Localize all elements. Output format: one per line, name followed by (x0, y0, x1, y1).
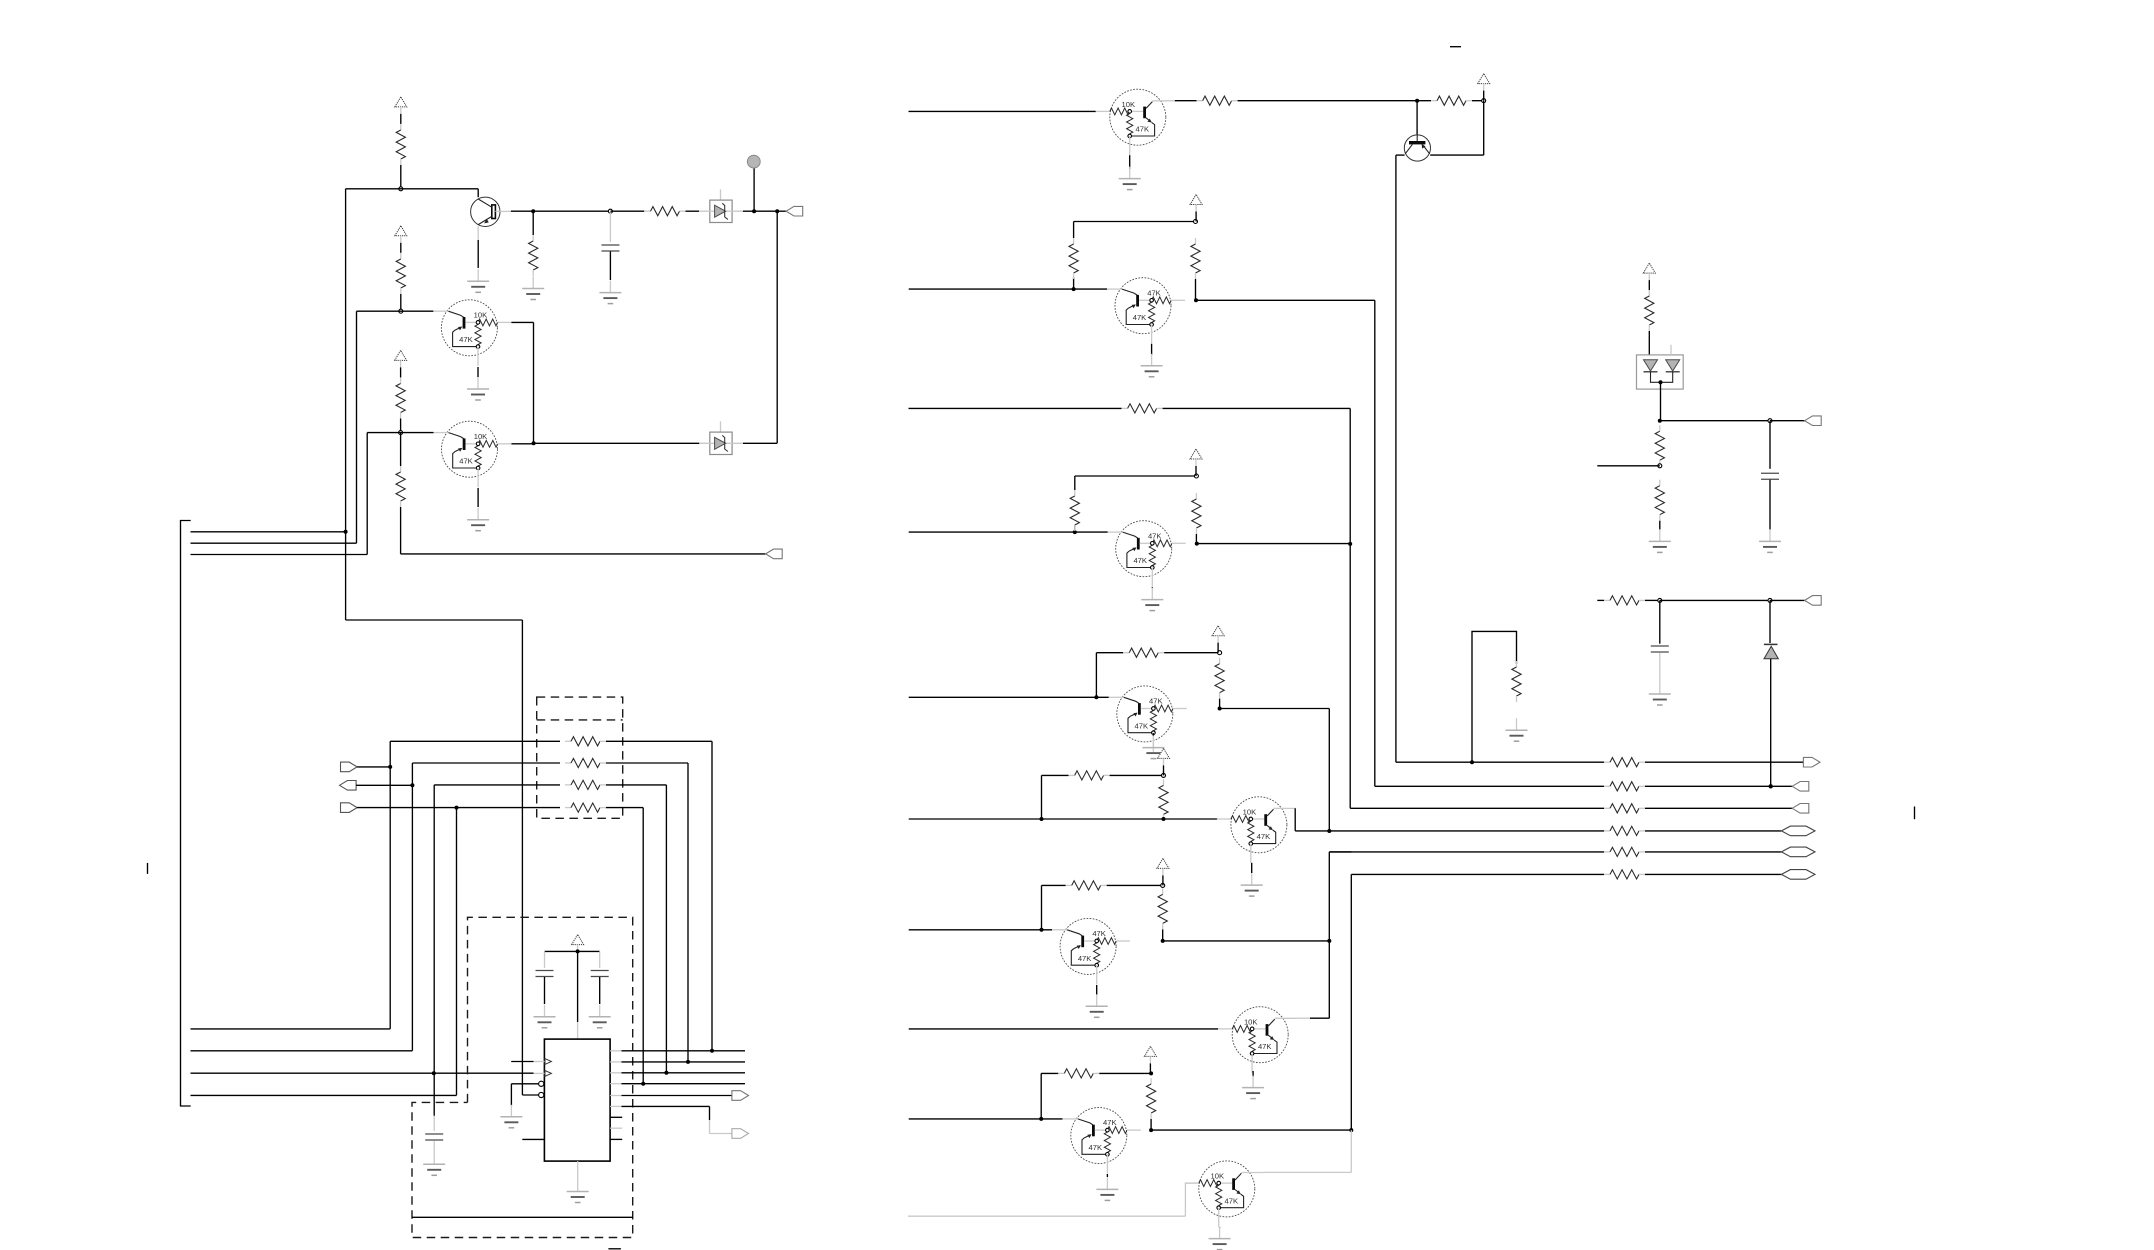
zener diode D2 (boxed) (699, 421, 743, 454)
wire row C (434, 784, 560, 786)
wire (577, 951, 579, 1022)
wire (1430, 154, 1484, 156)
wire T4 (191, 1094, 457, 1096)
wire (622, 1083, 746, 1085)
wire S2 output (1196, 299, 1375, 301)
wire S6 input (909, 818, 1042, 820)
wire row A (390, 740, 560, 742)
wire (1645, 807, 1792, 809)
resistor R24 (1150, 1078, 1152, 1084)
ground (1659, 682, 1661, 694)
wire (622, 1072, 746, 1074)
power V+ P4 (572, 935, 584, 945)
node junction (432, 1071, 436, 1075)
connector tag O2 (1792, 782, 1809, 792)
wire (622, 1050, 746, 1052)
resistor R26 (1516, 661, 1518, 667)
wire row D (457, 807, 561, 809)
connector tag O1 (1803, 757, 1820, 767)
ground (577, 1180, 579, 1192)
wire (1349, 408, 1351, 544)
dual diode D3 (boxed pair) (1637, 345, 1684, 389)
wire (1396, 154, 1405, 156)
node junction (641, 1082, 645, 1086)
wire (606, 807, 643, 809)
svg-text:10K: 10K (1244, 1017, 1258, 1026)
svg-text:47K: 47K (1089, 1143, 1103, 1152)
node junction (664, 1071, 668, 1075)
svg-text:47K: 47K (1149, 697, 1163, 706)
wire (743, 442, 777, 444)
wire (1645, 761, 1804, 763)
connector tag O8 (1805, 596, 1822, 606)
wire (1151, 344, 1153, 355)
svg-text:47K: 47K (459, 335, 473, 344)
svg-text:10K: 10K (474, 432, 488, 441)
ground (477, 377, 479, 389)
wire (1042, 818, 1218, 820)
ground (1151, 354, 1153, 366)
node N1 junction (399, 187, 403, 191)
node junction (686, 1060, 690, 1064)
oscillator module X1 (dashed box) (412, 917, 633, 1237)
wire row5 (1329, 851, 1604, 853)
resistor R19 (1042, 774, 1069, 776)
resistor R32 (1648, 290, 1650, 296)
wire (754, 210, 777, 212)
node junction (1482, 99, 1486, 103)
wire (1238, 100, 1418, 102)
node junction (1195, 542, 1199, 546)
resistor R34 (1659, 480, 1661, 486)
node junction (532, 441, 536, 445)
wire S8 input (909, 1028, 1218, 1030)
diode D4 (1769, 600, 1771, 643)
svg-text:10K: 10K (1122, 100, 1136, 109)
wire (1645, 599, 1660, 601)
wire (357, 807, 456, 809)
transistor Q10 (pre-biased PNP, 47K/47K) (1063, 1108, 1141, 1174)
wire (1163, 407, 1351, 409)
wire (753, 168, 755, 211)
wire (1660, 382, 1662, 420)
node junction (710, 1049, 714, 1053)
pin R9 stub (610, 1138, 622, 1140)
wire (346, 619, 523, 621)
wire row2 (1375, 785, 1604, 787)
power V+ P9 (1158, 748, 1170, 758)
resistor R35 (1604, 599, 1610, 601)
node junction (1349, 1128, 1353, 1132)
wire (400, 419, 402, 433)
wire S4 output (1197, 543, 1350, 545)
pin R6 (610, 1105, 621, 1107)
wire (412, 1216, 633, 1218)
connector tag O7 (1805, 416, 1822, 426)
node junction (1769, 784, 1773, 788)
ground (477, 508, 479, 520)
wire (532, 211, 534, 235)
wire row6 (1351, 873, 1604, 875)
node junction (1094, 695, 1098, 699)
wire (1416, 135, 1418, 141)
transistor DT2 (pre-biased PNP, 10K/47K) (434, 421, 512, 487)
wire (545, 950, 600, 952)
wire (743, 210, 754, 212)
wire row1 (1396, 761, 1472, 763)
connector tag IN1 (341, 762, 358, 772)
node junction (410, 783, 414, 787)
ground (544, 1005, 546, 1017)
wire (609, 213, 611, 242)
wire (477, 240, 479, 268)
wire T2 (191, 1050, 413, 1052)
svg-text:47K: 47K (1103, 1118, 1117, 1127)
wire (1041, 775, 1043, 819)
transistor DT1 (pre-biased PNP, 10K/47K) (433, 300, 511, 366)
node junction (1039, 1117, 1043, 1121)
resistor R4 (400, 253, 402, 259)
resistor R28 (1604, 807, 1610, 809)
power V+ P10 (1157, 858, 1169, 868)
wire (1129, 155, 1131, 169)
node junction (1658, 598, 1662, 602)
transistor Q6 (pre-biased PNP, 47K/47K) (1109, 686, 1187, 752)
resistor R18 (1219, 658, 1221, 664)
pin R3 (610, 1072, 621, 1074)
wire S7 output (1163, 940, 1330, 942)
wire (1645, 785, 1792, 787)
node junction (1218, 651, 1222, 655)
node junction (1149, 1128, 1153, 1132)
pin clock 2 (545, 1071, 551, 1077)
resistor RN1b (565, 762, 571, 764)
resistor R3 (532, 235, 534, 241)
transistor Q5 (pre-biased PNP, 47K/47K) (1108, 521, 1186, 587)
wire (533, 210, 610, 212)
wire (1770, 420, 1805, 422)
wire (1040, 1073, 1042, 1119)
capacitor C1 (601, 244, 619, 246)
resistor RN1d (565, 807, 571, 809)
wire S4 input (909, 531, 1108, 533)
zener diode D1 (boxed) (699, 190, 743, 223)
ground (599, 1005, 601, 1017)
transistor Q11 (pre-biased NPN, 10K/47K) (1185, 1161, 1264, 1227)
wire S5 output (1220, 708, 1330, 710)
wire (367, 432, 433, 434)
wire (622, 1061, 746, 1063)
wire L1 (191, 531, 346, 533)
pin R4 (610, 1083, 621, 1085)
wire row3 (1350, 807, 1604, 809)
resistor R22 (1162, 888, 1164, 894)
wire stub (1597, 599, 1604, 601)
node junction (1327, 829, 1331, 833)
wire L3 (191, 554, 368, 556)
wire S7 input (909, 929, 1052, 931)
svg-text:10K: 10K (1211, 1172, 1225, 1181)
wire (357, 310, 434, 312)
connector tag O3 (1792, 804, 1809, 814)
wire (1645, 851, 1781, 853)
transistor Q9 (pre-biased NPN, 10K/47K) (1218, 1007, 1297, 1073)
svg-text:47K: 47K (1147, 288, 1161, 297)
wire (511, 1061, 533, 1063)
connector tag O4 (1781, 826, 1815, 836)
svg-text:47K: 47K (1078, 954, 1092, 963)
ground (510, 1105, 512, 1117)
ground (1129, 167, 1131, 179)
ground (1659, 529, 1661, 541)
node junction (1072, 287, 1076, 291)
wire (511, 1083, 538, 1085)
ground (1151, 588, 1153, 600)
wire (606, 784, 666, 786)
node junction (1768, 419, 1772, 423)
node junction (1194, 474, 1198, 478)
wire S5 input (909, 696, 1109, 698)
node junction (775, 209, 779, 213)
wire (1184, 1183, 1186, 1216)
power V+ P8 (1212, 626, 1224, 636)
resistor R30 (1604, 851, 1610, 853)
pin R8 stub (610, 1127, 622, 1129)
wire (1328, 852, 1330, 1018)
transistor Q7 (pre-biased NPN, 10K/47K) (1217, 797, 1296, 863)
resistor R12 (1073, 277, 1075, 289)
node junction (1659, 380, 1663, 384)
ground (609, 281, 611, 293)
connector tag IN3 (341, 803, 358, 813)
wire (1472, 100, 1484, 102)
capacitor C4 (544, 951, 546, 968)
wire (477, 367, 479, 377)
wire (606, 740, 712, 742)
pin inv 4 (539, 1092, 544, 1097)
pin R7 stub (610, 1116, 622, 1118)
wire (1350, 874, 1352, 1130)
ground (1516, 718, 1518, 730)
wire (1770, 599, 1805, 601)
resistor R15 (1074, 525, 1076, 532)
svg-text:47K: 47K (1135, 721, 1149, 730)
power V+ P11 (1144, 1046, 1156, 1056)
wire (1251, 863, 1253, 873)
wire S10 input (inactive) (908, 1215, 1185, 1217)
wire (1151, 587, 1153, 588)
svg-text:47K: 47K (1092, 929, 1106, 938)
ground (1096, 994, 1098, 1006)
ground (1219, 1227, 1221, 1239)
resistor R11 (1417, 100, 1431, 102)
pin 5 stub (522, 1138, 544, 1140)
ground (1152, 736, 1154, 748)
wire (477, 488, 479, 507)
ground (433, 1152, 435, 1164)
page mark tick left (147, 863, 149, 874)
svg-text:47K: 47K (1133, 556, 1147, 565)
wire S2 input (909, 288, 1107, 290)
resistor R17 (1096, 652, 1123, 654)
node junction (1073, 530, 1077, 534)
resistor R23 (1041, 1072, 1058, 1074)
svg-text:47K: 47K (1257, 832, 1271, 841)
node junction (1415, 99, 1419, 103)
capacitor C5 (599, 951, 601, 968)
resistor R20 (1163, 779, 1165, 785)
capacitor C7 (1659, 600, 1661, 643)
wire (400, 165, 402, 189)
wire (356, 784, 412, 786)
wire T3 (191, 1072, 534, 1074)
wire U-branch (1472, 631, 1517, 762)
wire (606, 762, 688, 764)
wire row B (412, 762, 560, 764)
wire stub (1597, 465, 1660, 467)
connector tag OUT4 (732, 1129, 749, 1139)
svg-text:10K: 10K (1243, 808, 1257, 817)
wire S3 input (909, 407, 1122, 409)
wire (1660, 599, 1770, 601)
node junction (1161, 883, 1165, 887)
node junction (608, 209, 612, 213)
resistor R2 (645, 210, 651, 212)
wire (433, 1141, 435, 1153)
transistor Q1 (471, 197, 511, 240)
node junction (1162, 773, 1166, 777)
page mark tick right (1914, 807, 1916, 820)
wire (345, 189, 347, 620)
transistor Q8 (pre-biased PNP, 47K/47K) (1052, 918, 1130, 984)
svg-text:47K: 47K (1136, 125, 1150, 134)
wire (1416, 101, 1418, 135)
wire (1645, 830, 1781, 832)
node junction (455, 806, 459, 810)
wire (512, 443, 534, 445)
resistor R14 (1122, 407, 1128, 409)
wire S10 collector (1264, 1171, 1352, 1173)
power V+ P1 (395, 97, 407, 107)
wire (1645, 873, 1781, 875)
resistor R7 (400, 433, 402, 466)
wire (1106, 1174, 1108, 1177)
resistor R10 (1197, 100, 1203, 102)
svg-text:47K: 47K (1258, 1042, 1272, 1051)
IC U1 (544, 1039, 610, 1161)
pin R2 (610, 1061, 621, 1063)
wire (1395, 155, 1397, 762)
wire S9 output (1151, 1129, 1351, 1131)
resistor RN1a (565, 740, 571, 742)
transistor Q2 (PNP) (1404, 135, 1430, 161)
connector tag OUT1 (786, 206, 803, 216)
pin R1 (610, 1050, 621, 1052)
pin 10 (bottom) (577, 1161, 579, 1180)
wire (1096, 985, 1098, 995)
wire (777, 210, 786, 212)
ground (1769, 529, 1771, 541)
wire S1 input (909, 110, 1096, 112)
wire (1152, 733, 1154, 736)
pin inv 3 (539, 1081, 544, 1086)
wire (1095, 653, 1097, 698)
node junction (1040, 928, 1044, 932)
node junction (1470, 760, 1474, 764)
ground (1252, 1076, 1254, 1088)
resistor R31 (1604, 873, 1610, 875)
wire S8 collector (1297, 1017, 1310, 1019)
ground (1106, 1177, 1108, 1189)
power V+ P2 (395, 226, 407, 236)
node junction (1162, 817, 1166, 821)
wire T1 (191, 1028, 391, 1030)
node junction (1348, 542, 1352, 546)
wire (511, 210, 533, 212)
svg-text:47K: 47K (1133, 313, 1147, 322)
wire (1252, 1071, 1254, 1077)
wire (1660, 420, 1770, 422)
wire (1328, 709, 1330, 832)
connector tag O6 (1781, 870, 1815, 880)
wire row4 (1329, 830, 1604, 832)
node junction (1327, 939, 1331, 943)
wire (610, 210, 644, 212)
wire (1074, 221, 1196, 223)
power V+ P6 (1190, 195, 1202, 205)
wire (477, 189, 479, 197)
node junction (1161, 939, 1165, 943)
resistor R21 (1042, 884, 1066, 886)
node junction (1194, 298, 1198, 302)
resistor R33 (1659, 425, 1661, 431)
resistor R27 (1604, 785, 1610, 787)
wire (511, 321, 533, 323)
capacitor C6 (1769, 421, 1771, 469)
node junction (576, 949, 580, 953)
resistor RN1c (565, 784, 571, 786)
resistor R13 (1195, 238, 1197, 244)
connector tag O5 (1781, 847, 1815, 857)
node junction (399, 309, 403, 313)
wire S6 collector (1294, 808, 1296, 831)
wire (686, 210, 700, 212)
wire (622, 1105, 710, 1107)
ground (1251, 873, 1253, 885)
wire (357, 766, 390, 768)
connector tag IN2 (340, 781, 357, 791)
wire (401, 553, 766, 555)
node junction (531, 209, 535, 213)
power V+ P12 (1643, 263, 1655, 273)
wire (433, 785, 435, 1073)
power V+ P5 (1478, 74, 1490, 84)
wire (776, 211, 778, 443)
node junction (1040, 817, 1044, 821)
node junction (1194, 220, 1198, 224)
ground (532, 277, 534, 289)
wire (709, 1120, 711, 1134)
wire L2 (191, 542, 357, 544)
wire row5 riser junction (1329, 851, 1351, 853)
resistor R29 (1604, 830, 1610, 832)
power V+ P7 (1190, 449, 1202, 459)
wire (609, 252, 611, 281)
wire (1349, 544, 1351, 808)
svg-text:10K: 10K (474, 311, 488, 320)
transistor Q4 (pre-biased PNP, 47K/47K) (1107, 278, 1185, 344)
resistor R16 (1195, 493, 1197, 499)
